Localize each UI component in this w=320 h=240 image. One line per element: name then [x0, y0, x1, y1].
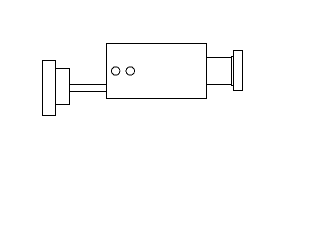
left shaft top wire [70, 84, 107, 86]
indicator circle left [112, 67, 120, 75]
indicator circle right [126, 67, 134, 75]
washer ring plate [232, 57, 234, 86]
left hub block [56, 69, 70, 105]
right barrel top wire [207, 57, 232, 59]
main body box [107, 44, 207, 99]
right barrel bottom wire [207, 84, 232, 86]
left shaft bottom wire [70, 91, 107, 93]
left flange plate [43, 61, 56, 116]
end cap plate [234, 51, 243, 91]
